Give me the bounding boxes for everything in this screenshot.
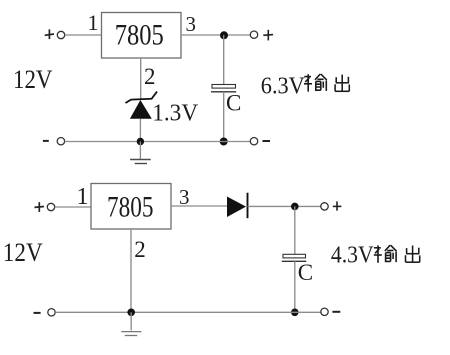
svg-text:1: 1 (88, 10, 99, 35)
terminal bottom-right of bottom circuit (321, 308, 328, 315)
svg-text:6.3V: 6.3V (261, 74, 306, 100)
node output bottom circuit (291, 203, 299, 211)
CJK shu top (304, 74, 327, 92)
minus sign top-right (263, 140, 271, 142)
wire input to regulator U2 (55, 206, 91, 208)
svg-text:1.3V: 1.3V (152, 100, 198, 127)
minus sign bottom-right (332, 311, 340, 313)
svg-text:4.3V: 4.3V (331, 243, 374, 269)
svg-text:C: C (226, 90, 241, 115)
wire capacitor C2 to rail (294, 261, 296, 312)
svg-text:7805: 7805 (115, 19, 164, 52)
svg-text:1: 1 (77, 184, 89, 210)
wire diode to output terminal (248, 205, 321, 207)
capacitor C2 (282, 254, 307, 261)
wire zener to rail (139, 119, 141, 142)
wire node to capacitor C1 (223, 35, 225, 85)
CJK chu bottom (406, 246, 420, 263)
zener diode D1 (126, 92, 158, 119)
ground rail top circuit (65, 141, 251, 143)
svg-text:7805: 7805 (107, 191, 154, 224)
terminal bottom-left of top circuit (57, 138, 64, 145)
wire capacitor C1 to ground rail (223, 92, 225, 142)
node ground junction bottom circuit (127, 309, 135, 317)
CJK shu bottom (374, 245, 397, 263)
svg-text:3: 3 (186, 12, 197, 36)
svg-text:12V: 12V (13, 65, 53, 94)
terminal top-left (57, 31, 64, 38)
svg-text:12V: 12V (3, 238, 43, 267)
plus sign top-right output (263, 30, 273, 41)
node capacitor C2 bottom (291, 309, 299, 317)
svg-text:3: 3 (179, 185, 190, 209)
CJK chu top (335, 75, 349, 92)
wire input to regulator U1 (65, 34, 102, 36)
terminal output bottom circuit (321, 203, 328, 210)
terminal bottom-left input (47, 203, 54, 210)
ground symbol top circuit (130, 142, 151, 164)
svg-text:C: C (298, 260, 313, 285)
capacitor C1 (211, 85, 236, 92)
wire node to capacitor C2 (294, 206, 296, 254)
ground symbol bottom circuit (121, 312, 141, 335)
regulator U2 box (91, 184, 171, 230)
diode D2 (227, 193, 248, 219)
terminal bottom-right of top circuit (250, 138, 257, 145)
node output top (220, 31, 228, 39)
plus sign top-left input (45, 29, 54, 39)
terminal bottom-left of bottom circuit (48, 309, 55, 316)
minus sign bottom-left (34, 312, 41, 314)
terminal top-right (250, 31, 257, 38)
wire pin 2 of U1 (140, 58, 142, 99)
minus sign top-left (43, 140, 49, 142)
svg-text:2: 2 (144, 64, 156, 89)
wire U1 output to terminal (181, 34, 250, 36)
regulator U1 box (102, 13, 182, 59)
node ground junction top circuit (137, 138, 144, 145)
plus sign bottom-left input (35, 202, 45, 212)
node capacitor bottom (220, 138, 228, 146)
ground rail bottom circuit (55, 311, 321, 313)
wire pin 2 of U2 (130, 229, 132, 312)
wire U2 output to diode D2 (171, 205, 227, 207)
plus sign bottom-right output (333, 201, 342, 210)
svg-text:2: 2 (134, 237, 146, 262)
